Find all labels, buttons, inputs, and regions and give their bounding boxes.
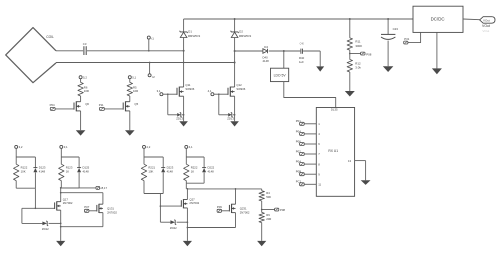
resistor R6 <box>78 82 83 96</box>
wire C40 to ground <box>303 50 320 52</box>
diode D123 <box>34 157 36 168</box>
resistor R4 <box>259 191 264 201</box>
diode D125 <box>78 157 80 168</box>
ground Q11 <box>179 121 188 126</box>
svg-text:4148: 4148 <box>83 169 90 173</box>
wire coil top <box>56 50 83 52</box>
junction source Q12 <box>234 114 236 116</box>
svg-text:LDO 5V: LDO 5V <box>274 74 287 78</box>
svg-text:P11: P11 <box>99 103 104 107</box>
svg-text:3,2: 3,2 <box>19 145 23 149</box>
wire node Q17 drain <box>60 187 62 189</box>
wire A to gate <box>159 194 161 223</box>
svg-text:2N7002: 2N7002 <box>107 210 117 214</box>
svg-text:10R: 10R <box>84 89 89 93</box>
svg-text:5,1: 5,1 <box>132 75 136 79</box>
wire gate Q12 <box>214 93 228 95</box>
junction source return <box>187 227 189 229</box>
testpoint t2 <box>149 63 151 74</box>
svg-text:4148: 4148 <box>167 169 174 173</box>
resistor R12 <box>347 60 352 73</box>
zener ZD22 <box>160 221 170 223</box>
wire source Q231 return <box>235 213 237 228</box>
diode D223 <box>162 157 164 168</box>
svg-text:SI9936: SI9936 <box>236 87 245 91</box>
wire branch split 3,1 <box>61 156 79 158</box>
svg-text:ZD13: ZD13 <box>227 117 234 121</box>
tap P08 output <box>261 209 263 211</box>
connector P07 <box>85 209 89 212</box>
resistor R222 <box>184 164 189 180</box>
coil L1 (loop antenna) <box>6 28 56 83</box>
ground mcu <box>361 180 371 185</box>
junction LDO tap <box>283 50 285 52</box>
transistor Q27 <box>180 200 182 207</box>
wire R5 to Q5 <box>129 96 131 102</box>
mcu U1 box <box>316 108 354 197</box>
transistor Q6 <box>73 103 75 110</box>
svg-text:3,1: 3,1 <box>64 145 68 149</box>
wire D4 to C40 <box>269 50 301 52</box>
svg-text:Q6: Q6 <box>85 102 89 106</box>
wire C23 to ground <box>387 41 389 67</box>
svg-text:1K: 1K <box>66 169 70 173</box>
ground C40 <box>316 66 324 71</box>
ground Q27 <box>183 241 192 246</box>
svg-text:5,2: 5,2 <box>83 75 87 79</box>
tap P08 <box>349 53 351 55</box>
wire gate Q5 <box>104 108 123 110</box>
capacitor C40 <box>300 49 302 54</box>
transistor Q11 <box>176 88 178 95</box>
diode D4 <box>263 49 267 54</box>
ground Q17 <box>56 241 65 246</box>
wire DC/DC output <box>463 18 480 21</box>
resistor R11 <box>347 38 352 50</box>
pin 4,2 <box>143 145 146 148</box>
junction bottom wire / D2 column <box>234 62 236 64</box>
svg-text:D4: D4 <box>264 45 268 49</box>
svg-text:50K: 50K <box>266 195 271 199</box>
zener ZD12 <box>22 222 43 224</box>
wire node to R4 <box>261 189 263 191</box>
wire source Q27 <box>186 208 188 241</box>
ground R9 <box>257 241 266 246</box>
resistor R5 <box>127 82 132 96</box>
junction t2 <box>149 62 151 64</box>
wire R12 to ground <box>349 72 351 91</box>
svg-text:COIL: COIL <box>46 35 54 39</box>
wire source Q6 <box>80 111 82 130</box>
svg-text:13: 13 <box>348 159 352 163</box>
svg-text:t2: t2 <box>152 75 155 79</box>
svg-text:4148: 4148 <box>39 169 46 173</box>
svg-text:D1: D1 <box>188 30 192 34</box>
wire gate Q131 <box>89 210 97 212</box>
resistor R123 <box>59 164 64 180</box>
wire drain tie Q131 <box>60 192 62 194</box>
transistor Q12 <box>227 88 229 95</box>
svg-text:c8,17: c8,17 <box>100 186 107 190</box>
resistor R221 <box>141 164 146 180</box>
svg-text:D2: D2 <box>239 30 243 34</box>
ground Q6 <box>76 130 86 135</box>
pin 3,1 <box>60 145 63 148</box>
node wire right <box>60 187 62 189</box>
wire coil top 2 <box>87 50 184 52</box>
wire source Q11 <box>183 96 185 121</box>
svg-text:P31: P31 <box>404 37 409 41</box>
transistor Q17 <box>54 202 56 209</box>
wire R6 to Q6 <box>80 96 82 102</box>
svg-text:RX U1: RX U1 <box>328 149 338 153</box>
wire rectified output <box>234 50 236 52</box>
wire gate branch down Q11 <box>167 94 169 115</box>
svg-text:1uF: 1uF <box>299 60 304 64</box>
transistor Q131 <box>96 205 98 212</box>
wire gate Q11 <box>163 93 177 95</box>
wire branch A bottom <box>144 193 163 195</box>
junction rail R11 <box>349 18 351 20</box>
wire top rail <box>184 18 413 20</box>
capacitor C3 <box>83 46 85 55</box>
pin 3,1 (gate terminal Q11) <box>160 93 163 96</box>
svg-text:10R: 10R <box>133 89 138 93</box>
svg-text:2N7002: 2N7002 <box>240 210 250 214</box>
flag VOut <box>480 17 495 24</box>
svg-text:4148: 4148 <box>263 59 270 63</box>
svg-text:11: 11 <box>318 183 321 187</box>
svg-text:VOut: VOut <box>482 24 490 28</box>
ground R12 <box>345 91 355 97</box>
junction top wire / D1 column <box>183 50 185 52</box>
junction rail C23 <box>387 18 389 20</box>
pin 5,2 <box>79 76 82 79</box>
svg-text:SI9936: SI9936 <box>185 87 194 91</box>
svg-text:P08: P08 <box>366 52 372 56</box>
svg-text:20R: 20R <box>266 217 271 221</box>
connector P31 <box>408 32 421 42</box>
pin 4,1 <box>185 145 188 148</box>
wire branch split 3,2 <box>16 156 35 158</box>
wire D1 to Q11 <box>183 38 185 88</box>
svg-text:C3: C3 <box>83 42 87 46</box>
wire R4 R9 <box>261 201 263 212</box>
ground Q5 <box>125 130 135 135</box>
svg-text:ZD12: ZD12 <box>42 227 49 231</box>
svg-text:Q5: Q5 <box>134 102 138 106</box>
wire rail to R11 <box>349 19 351 38</box>
transistor Q5 <box>122 103 124 110</box>
svg-text:10K: 10K <box>148 169 153 173</box>
node wire right <box>187 188 189 190</box>
wire source Q131 return <box>102 213 104 227</box>
svg-text:10K: 10K <box>21 169 26 173</box>
svg-text:C40: C40 <box>300 43 305 45</box>
pin 3,2 <box>15 145 18 148</box>
connector P09 <box>217 209 221 212</box>
svg-text:DC/DC: DC/DC <box>431 17 445 22</box>
connector P11 <box>100 107 105 110</box>
zener ZD11 <box>168 114 177 116</box>
resistor R122 <box>14 164 19 180</box>
junction zener ZD12 <box>60 223 62 225</box>
junction zener ZD22 <box>187 221 189 223</box>
svg-text:1K: 1K <box>191 169 195 173</box>
transistor Q231 <box>228 205 230 212</box>
zener ZD12 <box>219 114 228 116</box>
wire branch split 4,1 <box>186 156 204 158</box>
wire gate Q231 <box>222 210 230 212</box>
wire coil bottom <box>56 62 235 64</box>
svg-text:DL35: DL35 <box>331 108 338 112</box>
svg-text:ZD22: ZD22 <box>170 226 177 230</box>
svg-text:2N7002: 2N7002 <box>63 201 73 205</box>
wire drain tie Q231 <box>235 188 237 190</box>
svg-text:VOut: VOut <box>482 29 489 33</box>
svg-text:3.0k: 3.0k <box>355 66 361 70</box>
svg-text:MMSZ5V2: MMSZ5V2 <box>239 34 252 38</box>
svg-text:P09: P09 <box>217 205 222 209</box>
svg-text:2N7002: 2N7002 <box>189 201 199 205</box>
wire source Q5 <box>129 111 131 130</box>
svg-text:P08: P08 <box>280 208 285 212</box>
svg-text:300K: 300K <box>355 44 362 48</box>
svg-text:t1: t1 <box>151 36 154 40</box>
svg-text:MMSZ5V2: MMSZ5V2 <box>188 34 201 38</box>
ground Q12 <box>230 121 239 126</box>
junction t1 <box>148 50 150 52</box>
wire gate branch down Q12 <box>218 94 220 115</box>
pin 5,1 <box>128 76 131 79</box>
svg-text:VOut: VOut <box>483 18 490 22</box>
pin 4,1 (gate terminal Q12) <box>211 93 214 96</box>
junction source Q11 <box>183 114 185 116</box>
wire branch split 4,2 <box>144 156 163 158</box>
wire R9 ground <box>261 223 263 241</box>
svg-text:4148: 4148 <box>208 169 215 173</box>
wire LDO to MCU <box>284 82 336 108</box>
converter U3 DC/DC <box>413 6 463 32</box>
testpoint t1 <box>147 36 150 39</box>
ground C23 <box>383 66 394 72</box>
svg-text:ZD13: ZD13 <box>176 117 183 121</box>
svg-text:4,2: 4,2 <box>146 145 150 149</box>
wire source Q17 <box>60 210 62 241</box>
svg-text:C23: C23 <box>393 27 399 31</box>
junction source return <box>60 226 62 228</box>
svg-text:P04: P04 <box>50 103 55 107</box>
wire DC/DC ground <box>436 32 438 68</box>
wire node Q27 drain <box>185 183 187 189</box>
wire branch B bottom <box>186 182 204 184</box>
capacitor C23 <box>387 19 389 34</box>
wire gate Q6 <box>55 108 74 110</box>
resistor R9 <box>259 212 264 222</box>
wire branch B bottom <box>61 187 79 189</box>
wire branch A bottom <box>16 187 35 189</box>
svg-text:4,1: 4,1 <box>189 145 193 149</box>
svg-text:P07: P07 <box>84 205 89 209</box>
svg-text:3,1: 3,1 <box>157 89 161 93</box>
svg-text:4,1: 4,1 <box>208 89 212 93</box>
wire D2 to Q12 <box>234 38 236 88</box>
diode D1 zener <box>183 19 185 32</box>
diode D222 <box>203 157 205 168</box>
wire R11 R12 <box>349 50 351 59</box>
wire A to gate <box>34 188 36 208</box>
wire source Q12 <box>234 96 236 121</box>
diode D2 zener <box>234 18 236 20</box>
connector P04 <box>50 107 55 110</box>
ground DC/DC <box>432 68 442 74</box>
regulator U2 LDO <box>283 51 285 68</box>
